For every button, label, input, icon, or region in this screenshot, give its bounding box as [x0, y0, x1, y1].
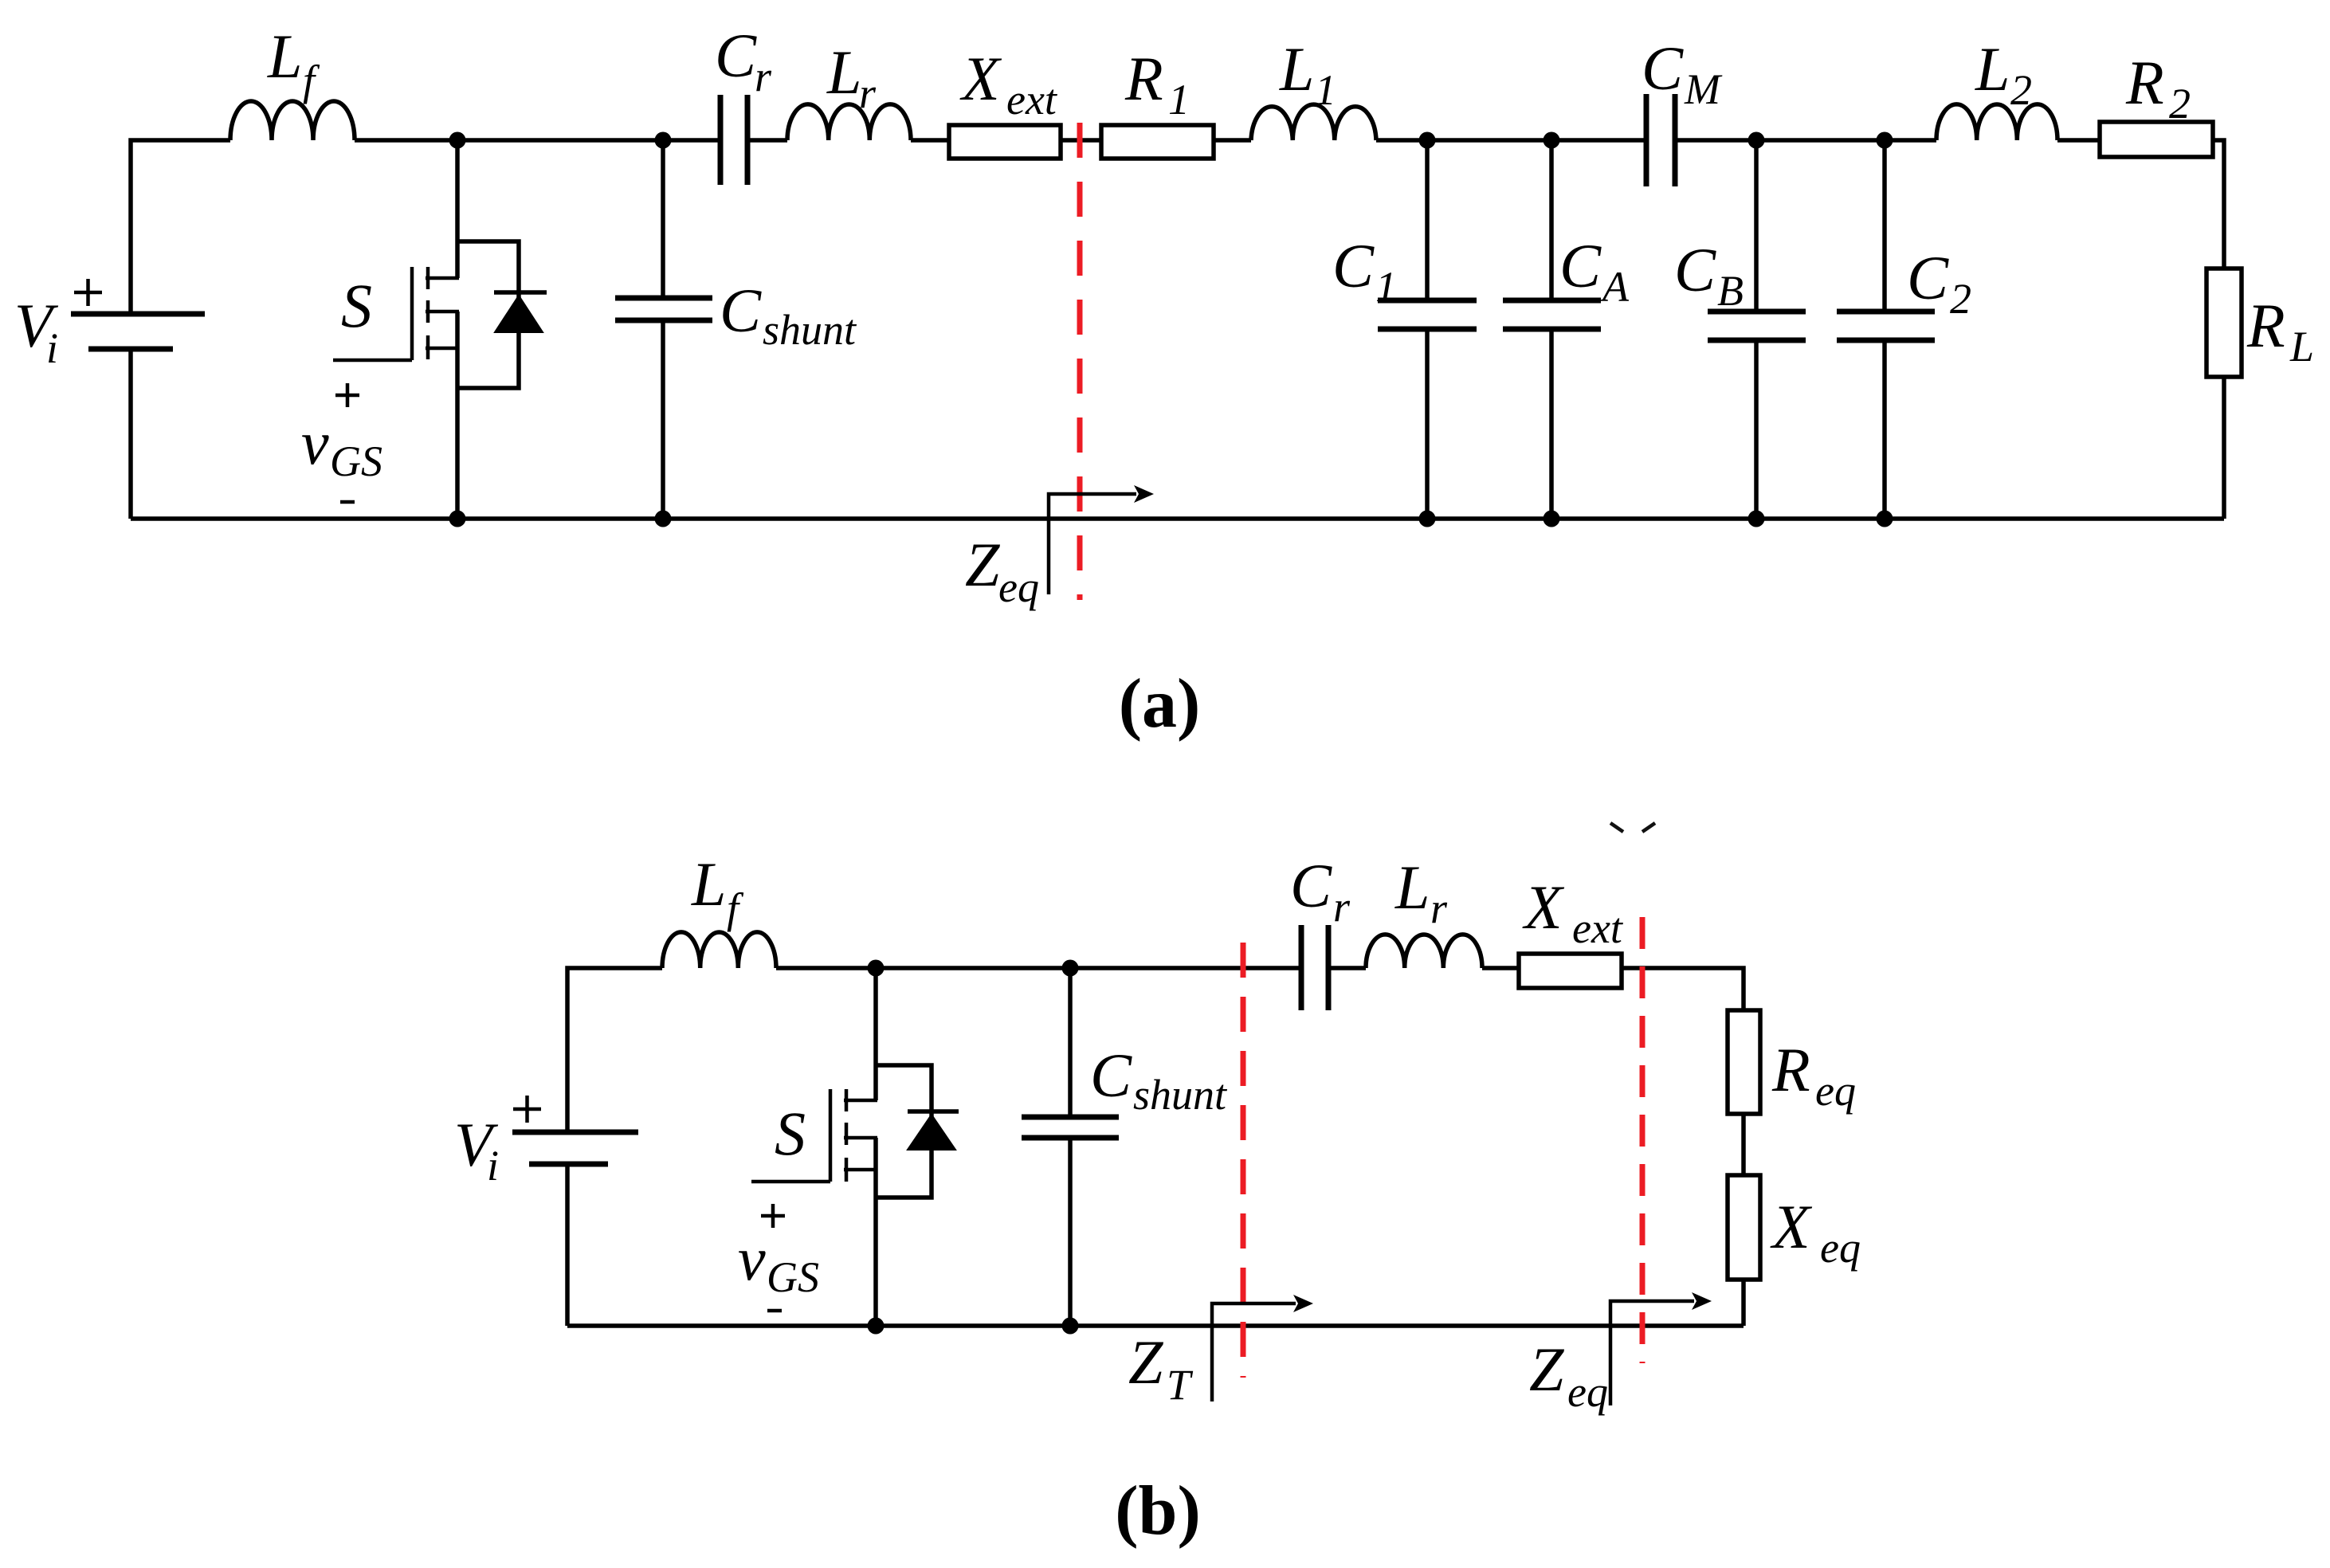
label C1: [1332, 231, 1397, 311]
wire bottom rail (b): [567, 1323, 1744, 1328]
label RL: [2246, 291, 2314, 370]
Zeq marker arrow: [1049, 485, 1154, 594]
label Lr (b): [1394, 853, 1448, 932]
svg-text:R: R: [1124, 44, 1163, 113]
wire: [128, 349, 133, 519]
svg-text:2: 2: [2010, 66, 2032, 114]
svg-text:X: X: [1522, 872, 1565, 942]
label Xext (b): [1522, 872, 1624, 952]
svg-text:C: C: [715, 21, 757, 90]
inductor L1: [1251, 104, 1376, 140]
svg-text:GS: GS: [767, 1253, 819, 1301]
Zeq marker arrow (b): [1610, 1292, 1712, 1405]
svg-text:X: X: [959, 44, 1002, 113]
label Vi: [14, 291, 59, 372]
svg-text:v: v: [301, 408, 329, 477]
capacitor Cr (b): [1301, 925, 1328, 1010]
node bottom S (b): [868, 1318, 885, 1335]
inductor Lf: [230, 101, 355, 140]
node Cshunt junction: [655, 132, 672, 149]
wire: [565, 1164, 570, 1326]
svg-text:L: L: [1279, 34, 1314, 104]
svg-text:M: M: [1684, 65, 1723, 113]
cut line Zeq (red dashed): [1640, 917, 1646, 1363]
capacitor C2: [1837, 140, 1935, 519]
svg-text:R: R: [2246, 291, 2285, 360]
label Lf: [267, 22, 320, 104]
node CA junction: [1544, 132, 1560, 149]
svg-text:i: i: [46, 324, 58, 372]
label vGS: [301, 408, 382, 485]
svg-text:R: R: [1771, 1035, 1810, 1104]
label Cshunt (b): [1090, 1041, 1228, 1119]
label Lr: [826, 37, 877, 117]
svg-text:2: 2: [1950, 275, 1971, 323]
gate minus sign (b): [767, 1309, 782, 1313]
node Cshunt junction (b): [1062, 960, 1079, 977]
resistor RL: [2206, 269, 2242, 377]
label Cr (b): [1290, 851, 1351, 931]
node CB junction: [1748, 132, 1765, 149]
diode (body diode of S) (b): [876, 1065, 959, 1198]
node bottom CA: [1544, 511, 1560, 527]
svg-text:L: L: [691, 849, 726, 919]
svg-text:L: L: [826, 37, 861, 107]
svg-text:1: 1: [1375, 263, 1397, 311]
svg-text:X: X: [1770, 1192, 1813, 1261]
node bottom CB: [1748, 511, 1765, 527]
wire: [355, 138, 720, 143]
wire: [1622, 968, 1744, 1010]
node C1 junction: [1419, 132, 1436, 149]
capacitor C1: [1378, 140, 1477, 519]
wire: [1482, 966, 1519, 970]
capacitor CB: [1708, 140, 1806, 519]
diode (body diode of S): [457, 241, 547, 388]
label Lf (b): [691, 849, 744, 932]
svg-text:Z: Z: [965, 530, 1001, 599]
svg-text:eq: eq: [1815, 1067, 1856, 1115]
svg-text:eq: eq: [1567, 1368, 1608, 1416]
svg-text:C: C: [1332, 231, 1375, 300]
label L2: [1975, 34, 2032, 114]
gate minus sign: [340, 500, 355, 504]
wire bottom rail: [131, 516, 2224, 521]
label CM: [1642, 33, 1723, 113]
wire: [1675, 138, 1936, 143]
node bottom S: [449, 511, 466, 527]
capacitor Cr: [720, 95, 747, 185]
cut line (red dashed): [1077, 123, 1083, 600]
svg-text:r: r: [755, 53, 772, 100]
battery Vi: [71, 314, 205, 349]
svg-text:T: T: [1167, 1361, 1194, 1409]
svg-text:r: r: [1333, 883, 1351, 931]
label C2: [1907, 243, 1971, 323]
label R1: [1124, 44, 1190, 123]
capacitor CA: [1503, 140, 1601, 519]
svg-text:A: A: [1600, 263, 1630, 311]
svg-text:r: r: [1430, 884, 1448, 932]
wire: [1741, 1114, 1746, 1175]
svg-text:(b): (b): [1115, 1472, 1201, 1550]
inductor Lr: [787, 104, 911, 140]
label CB: [1674, 235, 1744, 315]
node bottom C2: [1877, 511, 1893, 527]
svg-text:L: L: [2289, 323, 2314, 370]
svg-text:L: L: [267, 22, 302, 91]
svg-text:eq: eq: [1820, 1224, 1861, 1272]
node drain junction: [449, 132, 466, 149]
wire: [131, 140, 230, 314]
wire: [567, 968, 662, 1132]
svg-text:GS: GS: [330, 437, 382, 485]
resistor Xext (b): [1519, 954, 1622, 988]
wire: [747, 138, 787, 143]
label Zeq: [965, 530, 1039, 611]
svg-text:ext: ext: [1006, 76, 1058, 123]
wire: [1328, 966, 1366, 970]
resistor Xext: [949, 125, 1061, 159]
wire: [1214, 138, 1251, 143]
svg-text:Z: Z: [1529, 1335, 1565, 1404]
gate plus sign (b): [761, 1204, 785, 1228]
label Xeq: [1770, 1192, 1861, 1272]
svg-text:shunt: shunt: [763, 306, 857, 354]
svg-text:ext: ext: [1572, 904, 1624, 952]
svg-text:r: r: [859, 69, 877, 117]
svg-text:B: B: [1717, 267, 1744, 315]
wire: [2222, 377, 2226, 519]
svg-text:C: C: [1642, 33, 1684, 103]
label Vi (b): [454, 1110, 499, 1190]
svg-text:C: C: [1090, 1041, 1132, 1110]
svg-text:1: 1: [1168, 76, 1190, 123]
node bottom C1: [1419, 511, 1436, 527]
node C2 junction: [1877, 132, 1893, 149]
label ZT: [1128, 1327, 1194, 1409]
resistor R2: [2100, 122, 2213, 157]
svg-text:(a): (a): [1119, 665, 1201, 743]
svg-text:S: S: [775, 1099, 806, 1168]
wire: [2057, 138, 2100, 143]
svg-text:C: C: [1907, 243, 1949, 312]
label vGS (b): [738, 1224, 819, 1301]
stray arc artifact: [1610, 823, 1655, 832]
battery Vi (b): [512, 1132, 638, 1164]
label CA: [1559, 231, 1630, 311]
wire: [776, 966, 1301, 970]
wire: [1376, 138, 1646, 143]
wire: [2213, 140, 2224, 269]
svg-text:i: i: [487, 1142, 499, 1190]
resistor Xeq: [1728, 1175, 1760, 1280]
battery plus sign: [74, 279, 102, 306]
svg-text:Z: Z: [1128, 1327, 1164, 1397]
battery plus sign (b): [513, 1096, 541, 1123]
svg-text:eq: eq: [998, 563, 1039, 611]
svg-text:L: L: [1975, 34, 2010, 104]
capacitor Cshunt: [615, 140, 712, 519]
wire: [1061, 138, 1101, 143]
svg-text:S: S: [341, 271, 372, 340]
svg-text:C: C: [1290, 851, 1332, 920]
transistor S (MOSFET) (b): [751, 968, 877, 1326]
svg-text:C: C: [1559, 231, 1602, 300]
capacitor CM: [1646, 94, 1675, 186]
svg-text:L: L: [1394, 853, 1430, 922]
svg-text:R: R: [2125, 48, 2164, 117]
inductor Lr (b): [1366, 935, 1482, 968]
inductor L2: [1936, 104, 2057, 140]
svg-text:C: C: [1674, 235, 1716, 304]
svg-text:C: C: [720, 276, 762, 345]
label Req: [1771, 1035, 1856, 1115]
ZT marker arrow: [1212, 1295, 1313, 1401]
cut line ZT (red dashed): [1241, 943, 1246, 1378]
label Zeq (b): [1529, 1335, 1608, 1416]
resistor Req: [1728, 1010, 1760, 1114]
wire: [1741, 1280, 1746, 1326]
svg-text:v: v: [738, 1224, 766, 1293]
transistor S (MOSFET): [333, 140, 459, 519]
wire: [911, 138, 949, 143]
label Cr: [715, 21, 772, 100]
node bottom Cshunt (b): [1062, 1318, 1079, 1335]
node bottom Cshunt: [655, 511, 672, 527]
label Xext: [959, 44, 1058, 123]
label R2: [2125, 48, 2191, 127]
inductor Lf (b): [662, 932, 776, 968]
gate plus sign: [335, 383, 359, 407]
label L1: [1279, 34, 1336, 114]
capacitor Cshunt (b): [1022, 968, 1119, 1326]
svg-text:1: 1: [1315, 66, 1336, 114]
svg-text:shunt: shunt: [1133, 1071, 1228, 1119]
svg-text:2: 2: [2169, 80, 2191, 127]
resistor R1: [1101, 125, 1214, 159]
label Cshunt: [720, 276, 857, 354]
node drain junction (b): [868, 960, 885, 977]
